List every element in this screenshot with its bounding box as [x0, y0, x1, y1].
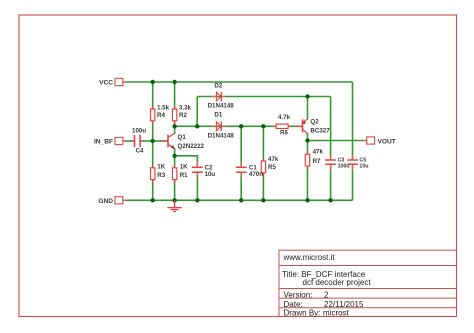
wire C3 bottom to ground rail — [330, 165, 332, 201]
wire R4/R3 vertical x=152.7 — [152, 82, 154, 200]
svg-text:1.5k: 1.5k — [157, 105, 170, 112]
svg-text:10u: 10u — [205, 171, 216, 178]
junction Q2 emitter / D2 row — [305, 94, 309, 98]
resistor R4 — [151, 105, 170, 125]
svg-text:C5: C5 — [359, 157, 366, 163]
transistor Q1 (2N2222 NPN) — [162, 133, 205, 150]
wire D2 branch riser — [196, 97, 198, 127]
svg-text:3.3k: 3.3k — [179, 105, 192, 112]
svg-text:R1: R1 — [180, 172, 188, 179]
svg-text:D1N4148: D1N4148 — [208, 103, 235, 110]
junction Q2 collector / VOUT — [305, 138, 309, 142]
resistor R3 — [151, 163, 166, 183]
junction gnd R7 — [305, 198, 309, 202]
svg-text:C3: C3 — [338, 157, 345, 163]
capacitor C3 — [325, 155, 350, 171]
wire D1 row (collector node to Q2 base) — [175, 125, 302, 127]
junction base node — [151, 139, 155, 143]
svg-text:10u: 10u — [359, 164, 368, 170]
wire emitter row to C2 — [175, 156, 198, 167]
wire VOUT row — [308, 140, 368, 142]
svg-text:D1: D1 — [214, 112, 222, 119]
wire R2 vertical — [174, 82, 176, 126]
wire Q1 emitter stub — [174, 148, 176, 156]
wire C5 bottom to ground rail — [352, 165, 354, 201]
svg-text:R7: R7 — [313, 158, 321, 165]
junction D2 branch — [195, 124, 199, 128]
port VOUT — [364, 137, 396, 145]
wire R7 vertical — [307, 141, 309, 201]
svg-text:D1N4148: D1N4148 — [208, 132, 235, 139]
capacitor C1 — [236, 162, 263, 179]
diode D2 — [208, 83, 235, 110]
port IN_BF — [94, 137, 126, 145]
junction C1 top — [239, 124, 243, 128]
wire C1 bottom to ground rail — [240, 172, 242, 200]
svg-text:R3: R3 — [157, 172, 165, 179]
junction gnd C2 — [195, 198, 199, 202]
svg-text:R2: R2 — [179, 112, 187, 119]
wire IN_BF to C4 — [123, 140, 134, 142]
port VCC — [99, 78, 126, 86]
wire Q1 collector stub — [174, 126, 176, 134]
junction gnd C1 — [239, 198, 243, 202]
svg-text:1K: 1K — [180, 163, 188, 170]
resistor R2 — [172, 105, 191, 125]
svg-text:470n: 470n — [249, 171, 263, 178]
wire Q2 collector stub — [307, 134, 309, 141]
svg-text:Q2: Q2 — [310, 119, 319, 126]
capacitor C2 — [192, 162, 216, 179]
svg-text:R4: R4 — [157, 112, 165, 119]
junction gnd R5 — [261, 198, 265, 202]
svg-text:2: 2 — [324, 290, 329, 299]
svg-text:C4: C4 — [136, 148, 144, 155]
ground symbol — [167, 200, 182, 211]
junction gnd C3 — [328, 198, 332, 202]
svg-text:47k: 47k — [313, 148, 324, 155]
wire C2 bottom to ground rail — [196, 172, 198, 200]
svg-text:R6: R6 — [280, 130, 288, 137]
resistor R6 (horizontal) — [273, 114, 291, 137]
wire VCC rail — [123, 81, 353, 83]
svg-text:dcf decoder project: dcf decoder project — [303, 278, 372, 287]
svg-text:Q1: Q1 — [178, 134, 187, 141]
resistor R1 — [172, 163, 188, 183]
svg-text:47k: 47k — [268, 156, 279, 163]
wire Q2 emitter riser — [307, 97, 309, 120]
svg-text:GND: GND — [98, 198, 113, 205]
svg-text:microst: microst — [323, 309, 350, 318]
junction collector node — [172, 124, 176, 128]
diode D1 — [208, 112, 235, 140]
junction gnd R3 — [151, 198, 155, 202]
svg-text:Q2N2222: Q2N2222 — [178, 143, 205, 150]
junction gnd symbol — [172, 198, 176, 202]
svg-text:www.microst.it: www.microst.it — [283, 253, 336, 262]
resistor R7 — [305, 148, 323, 168]
title block — [279, 250, 457, 316]
wire D2 row drop to C3 — [330, 97, 332, 161]
svg-text:VOUT: VOUT — [378, 138, 396, 145]
port GND — [98, 197, 126, 205]
svg-text:4.7k: 4.7k — [278, 114, 291, 121]
capacitor C5 — [347, 155, 368, 171]
svg-text:100u: 100u — [132, 127, 146, 134]
wire R5 riser — [262, 126, 264, 200]
transistor Q2 (BC327 PNP) — [296, 119, 330, 135]
wire ground rail — [123, 199, 353, 201]
junction VCC/R4 — [151, 80, 155, 84]
svg-text:R5: R5 — [268, 164, 276, 171]
wire base node to Q1 base — [153, 140, 168, 142]
wire C4 to base node — [141, 140, 153, 142]
wire VCC right drop to C5 — [352, 82, 354, 160]
junction VCC/R2 — [172, 80, 176, 84]
svg-text:IN_BF: IN_BF — [94, 139, 113, 146]
svg-text:Version:: Version: — [284, 290, 313, 299]
capacitor C4 (series) — [131, 127, 146, 154]
svg-text:VCC: VCC — [99, 80, 113, 87]
wire D2 row — [197, 96, 330, 98]
junction R5 top — [261, 124, 265, 128]
svg-text:BC327: BC327 — [310, 127, 330, 134]
junction emitter node — [172, 154, 176, 158]
resistor R5 — [261, 156, 279, 176]
wire C1 riser — [240, 126, 242, 167]
svg-text:1K: 1K — [157, 163, 165, 170]
svg-text:Drawn By:: Drawn By: — [284, 309, 321, 318]
svg-text:D2: D2 — [214, 83, 222, 90]
wire R1 vertical — [174, 156, 176, 201]
